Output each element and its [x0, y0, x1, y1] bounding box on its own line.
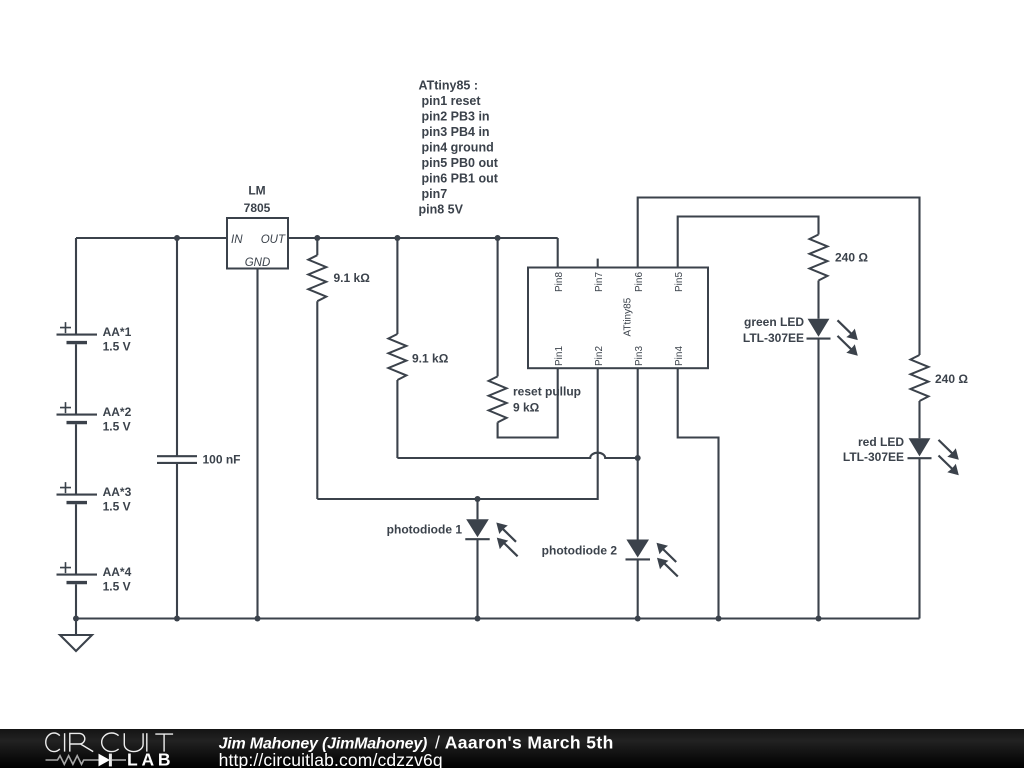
svg-text:http://circuitlab.com/cdzzv6q: http://circuitlab.com/cdzzv6q — [219, 750, 443, 768]
svg-text:100 nF: 100 nF — [203, 453, 241, 467]
wire R4 to green LED — [817, 281, 819, 319]
svg-text:pin7: pin7 — [422, 187, 448, 201]
svg-text:9.1 kΩ: 9.1 kΩ — [412, 351, 449, 365]
svg-text:green LED: green LED — [744, 315, 804, 329]
junction photodiode 1 top — [475, 496, 481, 502]
wire Pin5 to green LED column — [678, 217, 819, 268]
junction rail photodiode 1 — [475, 616, 481, 622]
wire R3 bottom loop to Pin1 — [498, 368, 558, 437]
junction rail LM GND — [255, 616, 261, 622]
svg-text:LTL-307EE: LTL-307EE — [843, 450, 904, 464]
svg-text:Pin7: Pin7 — [594, 272, 605, 292]
LED D3 green LED LTL-307EE — [743, 315, 858, 619]
junction rail battery — [73, 616, 79, 622]
note ATtiny85 pin description — [419, 78, 499, 216]
wire Pin4 to ground rail — [678, 368, 719, 618]
svg-text:Pin6: Pin6 — [634, 272, 645, 292]
wire R2 bottom to hop row — [396, 380, 398, 458]
junction OUT at R1 — [314, 235, 320, 241]
wire LM7805 OUT rail — [288, 237, 558, 239]
svg-text:LM: LM — [248, 184, 265, 198]
svg-text:1.5 V: 1.5 V — [103, 419, 131, 433]
svg-text:LAB: LAB — [127, 749, 174, 768]
svg-text:red LED: red LED — [858, 435, 904, 449]
wire hop row from R2 to Pin3 with hop over Pin2 — [397, 453, 637, 458]
junction rail photodiode 2 — [635, 616, 641, 622]
svg-text:Pin8: Pin8 — [554, 272, 565, 292]
capacitor C1 100 nF — [157, 238, 241, 619]
wire battery top to LM7805 IN — [76, 237, 228, 239]
wire LM7805 GND to bottom rail — [256, 269, 258, 619]
ground — [60, 619, 92, 652]
svg-text:1.5 V: 1.5 V — [103, 499, 131, 513]
resistor R2 9.1 kΩ — [388, 238, 448, 380]
svg-text:1.5 V: 1.5 V — [103, 579, 131, 593]
wire between AA*1 and AA*2 — [75, 344, 77, 414]
junction hop row at Pin3 — [635, 455, 641, 461]
junction OUT at R3 — [495, 235, 501, 241]
svg-text:Pin4: Pin4 — [674, 346, 685, 366]
svg-text:pin2 PB3 in: pin2 PB3 in — [422, 109, 490, 123]
svg-text:reset pullup: reset pullup — [513, 384, 581, 398]
svg-text:AA*2: AA*2 — [103, 405, 132, 419]
resistor R5 240 Ω (red branch) — [911, 355, 969, 401]
svg-text:240 Ω: 240 Ω — [835, 251, 868, 265]
wire R1 bottom to node row — [316, 301, 318, 499]
wire between AA*2 and AA*3 — [75, 424, 77, 494]
CircuitLab logo resistor-diode line — [46, 754, 127, 767]
LED D4 red LED LTL-307EE — [843, 435, 959, 618]
resistor R4 240 Ω (green branch) — [810, 235, 869, 281]
svg-text:AA*3: AA*3 — [103, 485, 132, 499]
svg-text:ATtiny85: ATtiny85 — [623, 297, 634, 336]
battery V3 AA*3 — [57, 482, 132, 513]
junction rail green LED — [816, 616, 822, 622]
wire battery column segment 1 — [75, 238, 77, 335]
svg-text:pin6 PB1 out: pin6 PB1 out — [422, 171, 499, 185]
battery V1 AA*1 — [57, 322, 132, 353]
junction rail cap — [174, 616, 180, 622]
svg-text:9.1 kΩ: 9.1 kΩ — [334, 271, 371, 285]
svg-text:7805: 7805 — [244, 201, 271, 215]
voltage regulator U2 LM7805 — [227, 184, 288, 270]
IC U1 ATtiny85 — [528, 268, 708, 369]
svg-text:Pin5: Pin5 — [674, 272, 685, 292]
svg-text:ATtiny85 :: ATtiny85 : — [419, 78, 479, 92]
svg-text:Pin2: Pin2 — [594, 346, 605, 366]
svg-text:Pin1: Pin1 — [554, 346, 565, 366]
photodiode D2 photodiode 2 — [542, 540, 678, 619]
svg-text:pin4 ground: pin4 ground — [422, 140, 494, 154]
wire Pin3 down — [637, 368, 639, 539]
wire 5V to ATtiny85 Pin8 — [557, 238, 559, 268]
svg-text:1.5 V: 1.5 V — [103, 339, 131, 353]
svg-text:9 kΩ: 9 kΩ — [513, 401, 540, 415]
wire AA*4 to bottom rail — [75, 584, 77, 618]
svg-text:OUT: OUT — [261, 234, 286, 246]
svg-text:AA*4: AA*4 — [103, 565, 132, 579]
wire between AA*3 and AA*4 — [75, 504, 77, 574]
bottom ground rail — [76, 617, 920, 619]
photodiode D1 photodiode 1 — [387, 499, 518, 619]
resistor R1 9.1 kΩ — [308, 238, 370, 301]
svg-text:GND: GND — [245, 257, 271, 269]
battery V4 AA*4 — [57, 562, 132, 593]
wire Pin6 to red LED column — [638, 198, 920, 356]
svg-text:pin5 PB0 out: pin5 PB0 out — [422, 156, 499, 170]
junction cap top — [174, 235, 180, 241]
svg-text:240 Ω: 240 Ω — [935, 372, 968, 386]
wire R5 to red LED — [918, 401, 920, 438]
svg-text:pin8 5V: pin8 5V — [419, 202, 464, 216]
junction OUT at R2 — [394, 235, 400, 241]
junction rail pin4 — [716, 616, 722, 622]
svg-text:AA*1: AA*1 — [103, 325, 132, 339]
svg-text:Pin3: Pin3 — [634, 346, 645, 366]
svg-text:photodiode 1: photodiode 1 — [387, 522, 463, 536]
resistor R3 reset pullup 9 kΩ — [489, 238, 581, 422]
svg-text:IN: IN — [231, 234, 243, 246]
CircuitLab logo CIRCUIT — [46, 733, 173, 752]
battery V2 AA*2 — [57, 402, 132, 433]
svg-text:pin3 PB4 in: pin3 PB4 in — [422, 125, 490, 139]
svg-text:pin1 reset: pin1 reset — [422, 94, 482, 108]
svg-text:LTL-307EE: LTL-307EE — [743, 331, 804, 345]
pin7 stub — [597, 259, 599, 268]
svg-text:photodiode 2: photodiode 2 — [542, 544, 618, 558]
wire Pin2 down and left to photodiode row — [317, 368, 597, 499]
